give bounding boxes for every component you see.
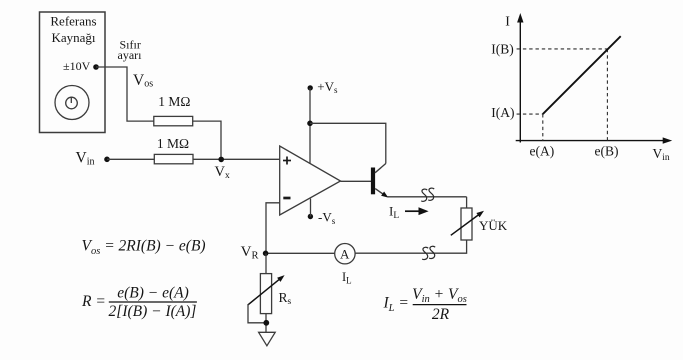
svg-text:Vos = 2RI(B) − e(B): Vos = 2RI(B) − e(B) <box>82 238 206 257</box>
wire: Rs bottom to ground <box>265 314 267 333</box>
graph: I axis (vertical) <box>517 13 523 143</box>
svg-text:I: I <box>505 14 510 29</box>
svg-text:e(A): e(A) <box>530 144 555 159</box>
svg-text:1 MΩ: 1 MΩ <box>158 94 190 109</box>
wire: Q1 emitter to load (upper) <box>388 196 467 198</box>
svg-text:ayarı: ayarı <box>118 48 143 62</box>
wire: node VR down to Rs <box>265 253 267 273</box>
node VR <box>263 251 269 257</box>
svg-text:R =: R = <box>81 293 106 310</box>
resistor R1 1 MΩ <box>154 116 193 125</box>
svg-text:Referans: Referans <box>50 14 96 29</box>
reference source box (Referans Kaynağı) <box>40 12 106 133</box>
wire: R2 through node Vx to op-amp + input <box>193 158 280 160</box>
resistor R2 1 MΩ <box>154 154 193 163</box>
dashed guides for I(B)/e(B) <box>517 49 608 141</box>
wire: YÜK bottom to ammeter (lower) <box>355 240 467 253</box>
resistor YÜK (variable load) <box>451 208 484 240</box>
wire: Vin to R2 <box>107 158 154 160</box>
break symbol (upper wire) <box>421 188 434 201</box>
ground <box>259 332 276 346</box>
node Vx <box>218 157 224 163</box>
svg-text:e(B): e(B) <box>595 144 619 159</box>
svg-text:I(B): I(B) <box>491 41 514 56</box>
wire: +Vs down to op-amp top edge <box>309 88 311 164</box>
wire: ammeter to node VR <box>265 252 334 254</box>
svg-text:IL =: IL = <box>383 295 409 314</box>
svg-text:1 MΩ: 1 MΩ <box>157 136 189 151</box>
node: Rs bottom junction <box>263 320 269 326</box>
wire: Rs wiper return to bottom node <box>248 304 267 323</box>
op-amp + input pin mark <box>283 157 291 165</box>
arrow: IL direction <box>405 207 429 215</box>
wire: +Vs branch to transistor collector <box>310 123 386 163</box>
svg-text:Kaynağı: Kaynağı <box>51 30 95 45</box>
dashed guides for I(A)/e(A) <box>517 114 543 141</box>
svg-text:±10V: ±10V <box>63 59 91 73</box>
graph transfer line <box>543 36 621 114</box>
wire: upper wire corner down to YÜK top <box>466 197 468 208</box>
wire: R1 to node Vx <box>193 121 221 159</box>
power +Vs terminal <box>308 85 313 90</box>
junction: +Vs branch to collector <box>307 121 313 127</box>
svg-text:e(B) − e(A): e(B) − e(A) <box>117 284 189 301</box>
resistor Rs (variable) <box>248 274 285 314</box>
op-amp U1 <box>280 146 341 215</box>
ammeter A (IL meter) <box>335 244 355 264</box>
formula R = (e(B)−e(A)) / (2[I(B)−I(A)]) <box>81 284 197 319</box>
wire: op-amp - input down to node VR <box>266 203 280 253</box>
wire: op-amp output to Q1 base <box>341 180 372 182</box>
svg-text:2[I(B) − I(A)]: 2[I(B) − I(A)] <box>109 303 197 320</box>
node: Vin input terminal <box>104 157 110 163</box>
node: reference source output <box>93 64 99 70</box>
svg-text:2R: 2R <box>432 306 450 323</box>
formula IL = (Vin + Vos)/(2R) <box>383 286 467 323</box>
break symbol (lower wire) <box>422 246 435 259</box>
label Sıfır ayarı (zero adjust) <box>118 38 143 63</box>
op-amp - input pin mark <box>283 197 290 200</box>
wire: reference output to R1 <box>96 67 154 121</box>
graph: Vin axis (horizontal) <box>516 137 673 143</box>
transistor Q1 (NPN) <box>371 164 388 198</box>
power -Vs terminal <box>308 214 313 219</box>
knob dial of reference source <box>55 86 89 120</box>
svg-text:A: A <box>340 247 350 262</box>
svg-text:I(A): I(A) <box>491 105 514 120</box>
wire: op-amp bottom edge to -Vs <box>310 199 312 217</box>
svg-text:YÜK: YÜK <box>479 218 508 233</box>
